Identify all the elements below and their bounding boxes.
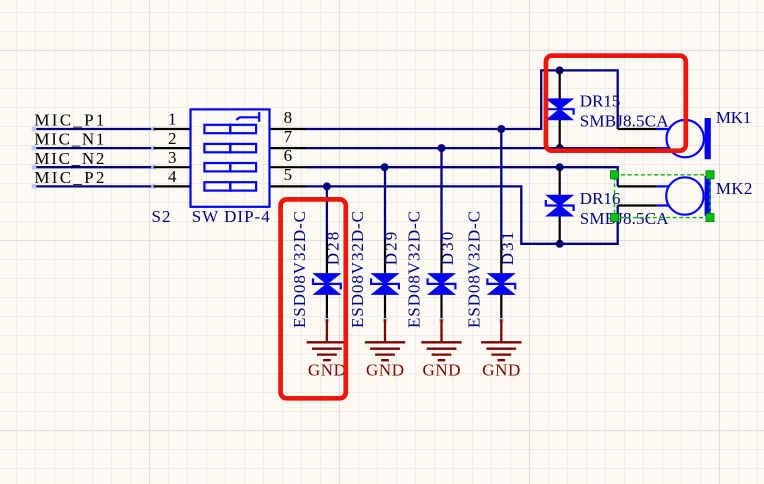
wire net2 from pin 7 to MK1 (306, 147, 618, 149)
wire net MIC_P2 (32, 184, 156, 189)
designator D31 (498, 232, 517, 266)
svg-text:D30: D30 (438, 232, 457, 266)
svg-text:GND: GND (423, 360, 461, 379)
wire net MIC_N1 (32, 146, 156, 151)
svg-text:8: 8 (284, 108, 293, 127)
net label MIC_N1 (34, 130, 104, 149)
selection handle (610, 171, 618, 179)
designator DR15 (580, 92, 621, 111)
junction (556, 163, 564, 171)
switch S2 SW DIP-4 body (191, 109, 270, 206)
microphone MK2 (656, 176, 711, 216)
junction (556, 240, 564, 248)
pin 3 of S2 (154, 148, 191, 167)
svg-text:4: 4 (168, 167, 177, 186)
svg-text:ESD08V32D-C: ESD08V32D-C (348, 211, 367, 328)
svg-text:GND: GND (308, 360, 346, 379)
annotation red box around DR15 (546, 56, 686, 151)
svg-text:MK2: MK2 (716, 179, 753, 198)
designator S2 (152, 207, 171, 226)
net label MIC_P1 (34, 111, 104, 130)
svg-text:DR15: DR15 (580, 92, 621, 111)
annotation red box around D28 (281, 199, 346, 398)
value SW DIP-4 (192, 207, 271, 226)
svg-text:6: 6 (284, 146, 293, 165)
microphone MK1 pin 2 (618, 147, 656, 149)
svg-text:3: 3 (168, 148, 177, 167)
pin 6 of S2 (270, 146, 307, 167)
value ESD08V32D-C of D31 (464, 211, 483, 328)
svg-text:MK1: MK1 (716, 108, 751, 127)
wire riser to D31 (500, 129, 502, 241)
selection handle (706, 214, 714, 222)
pin 8 of S2 (270, 108, 307, 129)
ESD diode D31 pins (500, 241, 502, 321)
svg-text:ESD08V32D-C: ESD08V32D-C (405, 211, 424, 328)
svg-text:7: 7 (284, 127, 293, 146)
svg-text:D28: D28 (323, 232, 342, 266)
ESD diode D29 (371, 274, 399, 294)
designator MK1 (716, 108, 751, 127)
wire net3 from pin 6 to MK2 (306, 167, 618, 186)
selection handle (706, 171, 714, 179)
wire net4 from pin 5 to MK2 (306, 186, 618, 243)
TVS diode DR16 (546, 196, 574, 216)
designator D28 (323, 232, 342, 266)
TVS diode DR15 pin wire (559, 70, 561, 148)
svg-text:SW DIP-4: SW DIP-4 (192, 207, 271, 226)
wire net MIC_P1 (32, 127, 156, 132)
svg-text:1: 1 (168, 110, 177, 129)
pin 2 of S2 (154, 129, 191, 148)
pin 5 of S2 (270, 165, 307, 186)
microphone MK1 (656, 118, 711, 159)
designator D29 (382, 232, 401, 266)
microphone MK2 pin 1 (618, 185, 656, 187)
ESD diode D31 (487, 274, 515, 294)
microphone MK1 pin 1 (618, 128, 656, 130)
svg-text:GND: GND (482, 360, 520, 379)
ESD diode D28 (313, 274, 341, 294)
ground GND (365, 318, 405, 379)
ground GND (307, 318, 347, 379)
ESD diode D28 pins (326, 241, 328, 321)
wire riser to D29 (384, 167, 386, 240)
svg-text:SMBJ8.5CA: SMBJ8.5CA (580, 112, 669, 131)
junction (556, 66, 564, 74)
value ESD08V32D-C of D30 (405, 211, 424, 328)
microphone MK2 pin 2 (618, 204, 656, 206)
junction (438, 144, 446, 152)
TVS diode DR15 (546, 99, 574, 119)
ground GND (421, 318, 461, 379)
svg-text:MIC_N2: MIC_N2 (34, 149, 104, 168)
ESD diode D29 pins (384, 241, 386, 321)
svg-text:D29: D29 (382, 232, 401, 266)
wire net MIC_N2 (32, 165, 156, 170)
TVS diode DR16 pin wire (559, 167, 561, 244)
junction (497, 125, 505, 133)
junction (556, 144, 564, 152)
selection handle (610, 214, 618, 222)
selection box around MK2 (615, 175, 711, 218)
svg-text:ESD08V32D-C: ESD08V32D-C (464, 211, 483, 328)
svg-text:ESD08V32D-C: ESD08V32D-C (290, 211, 309, 328)
wire riser to D28 (326, 186, 328, 240)
svg-text:GND: GND (366, 360, 404, 379)
net label MIC_P2 (34, 168, 104, 187)
designator DR16 (580, 189, 621, 208)
value ESD08V32D-C of D29 (348, 211, 367, 328)
svg-text:5: 5 (284, 165, 293, 184)
junction (323, 182, 331, 190)
pin 4 of S2 (154, 167, 191, 186)
pin 1 of S2 (154, 110, 191, 129)
ESD diode D30 (428, 274, 456, 294)
svg-text:MIC_N1: MIC_N1 (34, 130, 104, 149)
ground GND (481, 318, 521, 379)
net label MIC_N2 (34, 149, 104, 168)
wire riser to D30 (440, 148, 442, 240)
svg-text:SMBJ8.5CA: SMBJ8.5CA (580, 209, 669, 228)
value SMBJ8.5CA of DR15 (580, 112, 669, 131)
value SMBJ8.5CA of DR16 (580, 209, 669, 228)
junction (381, 163, 389, 171)
value ESD08V32D-C of D28 (290, 211, 309, 328)
wire net1 from pin 8 with bump to MK1 (306, 70, 618, 129)
designator MK2 (716, 179, 753, 198)
svg-text:2: 2 (168, 129, 177, 148)
pin 7 of S2 (270, 127, 307, 148)
svg-text:D31: D31 (498, 232, 517, 266)
ESD diode D30 pins (440, 241, 442, 321)
designator D30 (438, 232, 457, 266)
